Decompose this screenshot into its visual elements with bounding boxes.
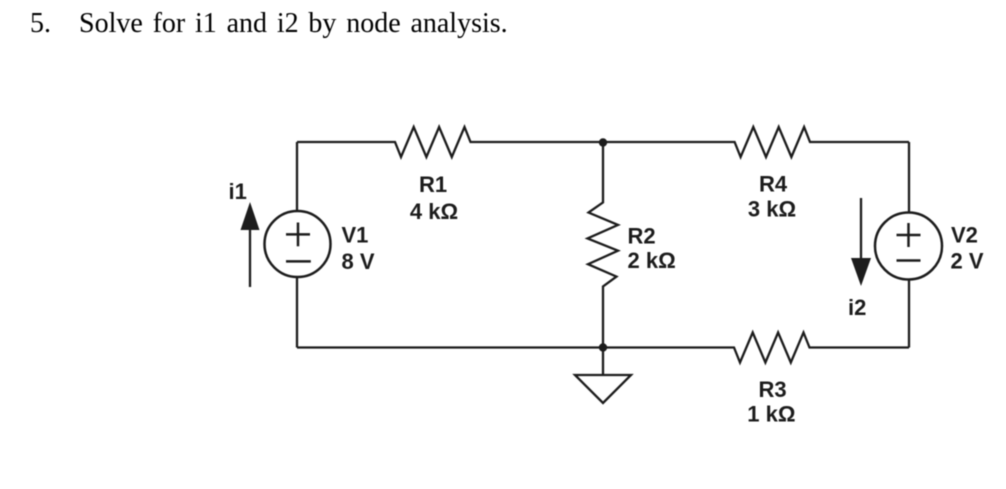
svg-text:R4: R4 bbox=[759, 171, 788, 196]
svg-text:2 V: 2 V bbox=[951, 249, 984, 274]
svg-text:i1: i1 bbox=[229, 179, 247, 204]
svg-text:8 V: 8 V bbox=[342, 249, 375, 274]
svg-text:i2: i2 bbox=[848, 295, 866, 320]
svg-text:4 kΩ: 4 kΩ bbox=[410, 199, 458, 224]
svg-text:V2: V2 bbox=[951, 223, 978, 248]
svg-text:V1: V1 bbox=[342, 223, 369, 248]
svg-text:Solve for i1 and i2 by node an: Solve for i1 and i2 by node analysis. bbox=[79, 8, 508, 39]
svg-text:R2: R2 bbox=[628, 223, 656, 248]
svg-text:1 kΩ: 1 kΩ bbox=[747, 402, 795, 427]
svg-text:R1: R1 bbox=[419, 172, 447, 197]
svg-text:2 kΩ: 2 kΩ bbox=[628, 248, 676, 273]
svg-text:5.: 5. bbox=[30, 8, 51, 39]
svg-text:R3: R3 bbox=[759, 377, 787, 402]
svg-text:3 kΩ: 3 kΩ bbox=[748, 197, 796, 222]
